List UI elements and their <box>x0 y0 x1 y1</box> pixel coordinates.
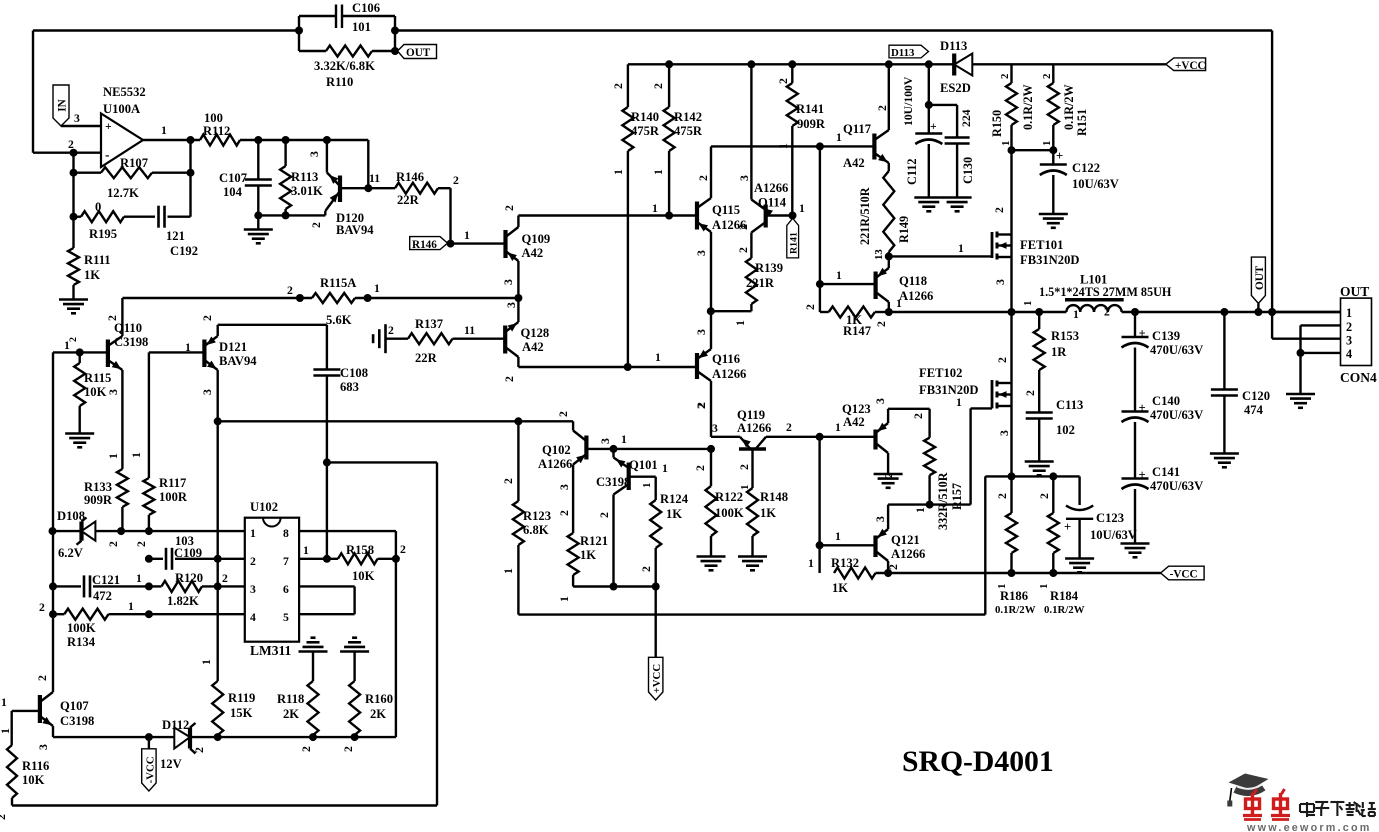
svg-text:2: 2 <box>107 541 120 547</box>
svg-text:2: 2 <box>694 465 707 471</box>
svg-text:3: 3 <box>874 516 887 522</box>
svg-text:Q118: Q118 <box>899 274 927 288</box>
svg-text:10K: 10K <box>84 385 107 399</box>
svg-text:2: 2 <box>1104 306 1110 319</box>
svg-text:R148: R148 <box>760 490 788 504</box>
svg-text:100R: 100R <box>159 490 188 504</box>
net flag D113 <box>889 45 929 59</box>
svg-text:OUT: OUT <box>1254 265 1266 290</box>
svg-text:1: 1 <box>374 282 380 295</box>
title SRQ-D4001 <box>902 746 1054 778</box>
logo text dianzi xiazaizhan <box>1300 802 1376 817</box>
svg-text:5.6K: 5.6K <box>326 313 352 327</box>
svg-text:A1266: A1266 <box>754 181 788 195</box>
diode D112 12V zener <box>160 718 206 771</box>
wire bottom loop <box>12 804 437 806</box>
svg-text:2: 2 <box>777 78 790 84</box>
svg-text:R140: R140 <box>631 110 659 124</box>
mosfet FET102 FB31N20D <box>919 357 1012 436</box>
wire CON4 pin3 link <box>1272 312 1340 339</box>
svg-text:1: 1 <box>652 202 658 215</box>
svg-text:3: 3 <box>505 302 518 308</box>
svg-text:1K: 1K <box>832 581 848 595</box>
svg-text:100K: 100K <box>67 621 96 635</box>
net flag +VCC <box>1166 58 1206 72</box>
resistor R132 1K <box>808 556 876 595</box>
wire D121 pin1 to R117 <box>130 352 149 478</box>
svg-text:R123: R123 <box>523 509 551 523</box>
svg-text:2: 2 <box>1041 74 1053 79</box>
svg-text:C122: C122 <box>1072 161 1100 175</box>
wire bottom rail (R123 to FET102) <box>518 476 985 614</box>
svg-text:3: 3 <box>107 389 120 395</box>
svg-text:100K: 100K <box>715 506 744 520</box>
wire Q123 collector to R157 <box>888 409 930 438</box>
svg-text:1: 1 <box>1038 584 1050 589</box>
net flag OUT (vertical) <box>1251 257 1266 312</box>
svg-text:Q123: Q123 <box>842 402 871 416</box>
resistor R146 22R <box>364 170 459 244</box>
resistor R118 2K <box>277 681 319 752</box>
svg-text:C141: C141 <box>1152 465 1180 479</box>
svg-text:2: 2 <box>738 464 751 470</box>
svg-text:A1266: A1266 <box>891 547 925 561</box>
resistor R121 1K <box>558 465 608 603</box>
resistor R124 1K <box>640 492 689 587</box>
svg-text:Q128: Q128 <box>521 326 550 340</box>
svg-text:1: 1 <box>835 530 841 543</box>
svg-text:R119: R119 <box>228 691 255 705</box>
transistor Q118 A1266 <box>804 256 933 327</box>
svg-text:2: 2 <box>342 746 355 752</box>
svg-text:2: 2 <box>400 543 406 556</box>
svg-text:2: 2 <box>996 493 1009 499</box>
capacitor C122 10U/63V <box>1040 149 1119 213</box>
svg-text:R122: R122 <box>715 490 743 504</box>
capacitor C109 103 <box>145 534 245 570</box>
connector CON4 <box>1340 284 1377 385</box>
svg-text:Q121: Q121 <box>891 533 920 547</box>
svg-text:1: 1 <box>835 421 841 434</box>
svg-text:R146: R146 <box>412 239 437 251</box>
svg-text:5: 5 <box>283 611 289 624</box>
svg-text:R147: R147 <box>843 324 871 338</box>
resistor R150 0.1R/2W <box>990 64 1035 150</box>
svg-text:IN: IN <box>57 99 69 111</box>
resistor R137 22R <box>386 317 506 365</box>
svg-text:0.1R/2W: 0.1R/2W <box>995 604 1036 616</box>
svg-text:R153: R153 <box>1051 329 1079 343</box>
svg-text:Q102: Q102 <box>542 443 571 457</box>
ground above R118 <box>299 638 328 681</box>
svg-text:2: 2 <box>310 222 323 228</box>
svg-text:2: 2 <box>695 402 708 408</box>
transistor Q119 A1266 <box>695 381 820 490</box>
svg-text:1: 1 <box>612 169 625 175</box>
svg-text:2: 2 <box>36 675 49 681</box>
svg-text:2: 2 <box>598 512 611 518</box>
svg-text:4: 4 <box>250 611 256 624</box>
resistor R142 475R <box>652 64 703 215</box>
transistor Q117 A42 <box>843 64 889 171</box>
svg-text:FB31N20D: FB31N20D <box>1020 253 1079 267</box>
svg-text:R124: R124 <box>660 492 689 506</box>
svg-text:+: + <box>1139 401 1146 415</box>
wire C108 to U102 pin7 node <box>323 458 331 562</box>
wire FET101 gate <box>885 242 992 260</box>
svg-text:224: 224 <box>960 109 973 127</box>
svg-text:+: + <box>105 120 112 133</box>
resistor R151 0.1R/2W <box>1041 64 1089 150</box>
wire D121 pin3 vertical <box>214 370 222 586</box>
svg-text:1: 1 <box>662 462 668 475</box>
svg-text:C107: C107 <box>219 171 247 185</box>
svg-text:R133: R133 <box>84 480 112 494</box>
wire R146 flag to Q109 base <box>451 242 506 244</box>
svg-text:2K: 2K <box>370 707 386 721</box>
svg-text:Q107: Q107 <box>60 699 89 713</box>
resistor R139 221R <box>711 258 783 326</box>
svg-text:1: 1 <box>896 297 902 310</box>
capacitor C192 121 <box>159 206 199 258</box>
resistor R149 221R/510R <box>858 171 911 260</box>
ground R148 <box>738 557 767 571</box>
svg-text:101: 101 <box>352 20 371 34</box>
transistor Q115 A1266 <box>695 146 746 311</box>
svg-text:1K: 1K <box>760 506 776 520</box>
transistor Q101 C3198 <box>596 449 668 587</box>
svg-text:C108: C108 <box>340 366 368 380</box>
svg-text:R160: R160 <box>365 692 393 706</box>
op-amp U100A NE5532 <box>101 85 146 167</box>
svg-text:3: 3 <box>695 250 708 256</box>
svg-text:LM311: LM311 <box>250 643 292 658</box>
svg-text:2: 2 <box>388 324 394 337</box>
svg-text:1: 1 <box>1 696 7 709</box>
net flag -VCC (bottom left) <box>142 737 157 791</box>
svg-text:683: 683 <box>340 380 359 394</box>
capacitor C140 470U/63V <box>1122 394 1204 478</box>
svg-text:R110: R110 <box>326 75 353 89</box>
svg-text:2: 2 <box>993 207 1006 213</box>
wire feedback block left <box>295 16 303 51</box>
svg-text:2: 2 <box>640 566 653 572</box>
svg-text:2: 2 <box>652 83 665 89</box>
svg-text:22R: 22R <box>397 193 420 207</box>
wire output rail <box>885 308 1341 316</box>
svg-text:U100A: U100A <box>103 102 140 116</box>
svg-text:NE5532: NE5532 <box>103 85 146 99</box>
svg-text:1: 1 <box>161 124 167 137</box>
wire op-amp output node <box>143 124 200 144</box>
ground above R160 <box>340 638 369 681</box>
transistor Q128 A42 <box>503 298 549 382</box>
svg-text:D113: D113 <box>940 39 967 53</box>
svg-text:2: 2 <box>612 83 625 89</box>
svg-text:Q101: Q101 <box>629 458 658 472</box>
svg-text:2: 2 <box>453 174 459 187</box>
svg-text:R141: R141 <box>796 102 824 116</box>
svg-text:+VCC: +VCC <box>651 664 663 694</box>
resistor R120 1.82K <box>145 571 245 608</box>
resistor R119 15K <box>200 586 255 737</box>
svg-text:2: 2 <box>201 315 214 321</box>
wire C107-R113-D120 bottom rail <box>254 211 325 219</box>
resistor R141 909R <box>777 64 826 215</box>
svg-text:A42: A42 <box>843 156 865 170</box>
svg-text:BAV94: BAV94 <box>336 223 374 237</box>
svg-text:12V: 12V <box>160 757 182 771</box>
svg-text:R121: R121 <box>580 534 608 548</box>
ground CON4 <box>1286 394 1315 408</box>
svg-text:1: 1 <box>1073 308 1079 321</box>
ground C113 <box>1025 462 1054 476</box>
svg-text:C139: C139 <box>1152 329 1180 343</box>
svg-text:1: 1 <box>250 527 256 540</box>
net flag -VCC (right) <box>1161 566 1205 580</box>
wire Q116 base rail <box>518 351 697 371</box>
ground C107 <box>244 215 273 243</box>
svg-text:3: 3 <box>250 583 256 596</box>
svg-text:R150: R150 <box>990 110 1004 137</box>
svg-text:Q119: Q119 <box>737 408 765 422</box>
resistor R117 100R <box>135 476 188 547</box>
svg-text:3: 3 <box>502 279 515 285</box>
svg-text:1: 1 <box>464 229 470 242</box>
svg-text:102: 102 <box>1056 423 1075 437</box>
svg-text:4: 4 <box>1346 347 1352 361</box>
svg-text:8: 8 <box>283 527 289 540</box>
svg-text:D108: D108 <box>57 509 85 523</box>
resistor R115A 5.6K <box>312 276 356 327</box>
ground R115 <box>65 434 94 448</box>
capacitor C130 224 <box>929 105 975 197</box>
svg-text:1.5*1*24TS 27MM 85UH: 1.5*1*24TS 27MM 85UH <box>1039 285 1172 299</box>
capacitor C113 102 <box>1024 390 1083 461</box>
svg-text:1: 1 <box>1041 141 1053 146</box>
resistor R184 0.1R/2W <box>1038 476 1085 616</box>
wire feedback block right <box>391 16 399 55</box>
svg-text:2K: 2K <box>283 707 299 721</box>
svg-text:1K: 1K <box>580 548 596 562</box>
capacitor C120 474 <box>1211 312 1270 453</box>
svg-text:C3198: C3198 <box>596 475 630 489</box>
svg-text:2: 2 <box>737 247 750 253</box>
resistor R195 0 <box>70 173 156 241</box>
svg-text:2: 2 <box>876 105 889 111</box>
svg-text:22R: 22R <box>415 351 438 365</box>
resistor R160 2K <box>342 681 393 752</box>
wire Q102 base node <box>610 433 712 453</box>
ground R111 <box>59 300 88 314</box>
svg-text:2: 2 <box>786 421 792 434</box>
transistor Q114 A1266 <box>737 64 805 258</box>
svg-text:1: 1 <box>836 269 842 282</box>
svg-text:13: 13 <box>873 249 885 260</box>
svg-text:FET102: FET102 <box>919 366 962 380</box>
transistor Q107 C3198 <box>1 675 94 750</box>
svg-text:C3198: C3198 <box>60 714 94 728</box>
resistor R116 10K <box>0 711 49 820</box>
resistor R153 1R <box>1022 301 1079 412</box>
ground Q123 <box>874 474 903 488</box>
svg-text:1: 1 <box>1022 301 1034 306</box>
svg-text:-VCC: -VCC <box>144 756 156 783</box>
svg-text:R117: R117 <box>159 476 186 490</box>
ground R137 (left style) <box>373 324 394 353</box>
svg-text:R149: R149 <box>897 216 911 243</box>
resistor R133 909R <box>84 469 128 547</box>
wire Q118 base vertical <box>816 146 824 312</box>
svg-text:C109: C109 <box>174 546 202 560</box>
svg-text:BAV94: BAV94 <box>219 354 257 368</box>
svg-text:2: 2 <box>557 411 570 417</box>
resistor R115 10K <box>74 352 111 432</box>
svg-text:Q117: Q117 <box>843 122 871 136</box>
wire R150-R151 bottom link <box>1008 146 1058 154</box>
svg-text:SRQ-D4001: SRQ-D4001 <box>902 746 1054 778</box>
transistor Q121 A1266 <box>874 505 925 573</box>
wire D121 to C108 <box>218 324 327 326</box>
logo bug characters <box>1243 789 1290 820</box>
resistor R122 100K <box>694 445 744 556</box>
diode D120 BAV94 <box>308 140 374 237</box>
logo url www.eeworm.com <box>1246 822 1372 832</box>
svg-text:R151: R151 <box>1075 109 1089 136</box>
svg-text:1: 1 <box>130 452 143 458</box>
svg-text:3.32K/6.8K: 3.32K/6.8K <box>314 59 375 73</box>
svg-text:1: 1 <box>558 596 571 602</box>
svg-text:470U/63V: 470U/63V <box>1150 408 1203 422</box>
svg-text:474: 474 <box>1244 403 1264 417</box>
net flag OUT (top) <box>398 45 437 60</box>
svg-text:A1266: A1266 <box>712 367 746 381</box>
svg-text:R120: R120 <box>175 571 203 585</box>
svg-text:-VCC: -VCC <box>1170 569 1198 581</box>
wire Q117 base rail <box>711 131 874 150</box>
svg-text:10U/100V: 10U/100V <box>902 76 915 126</box>
svg-text:1: 1 <box>136 572 142 585</box>
svg-text:3: 3 <box>998 430 1011 436</box>
svg-text:0.1R/2W: 0.1R/2W <box>1044 604 1085 616</box>
svg-text:11: 11 <box>369 172 380 185</box>
wire -VCC rail (left) <box>53 733 396 741</box>
svg-text:221R: 221R <box>746 276 775 290</box>
svg-text:+: + <box>1064 520 1071 534</box>
ground C112 <box>914 198 943 212</box>
svg-text:R186: R186 <box>1000 589 1028 603</box>
svg-text:FB31N20D: FB31N20D <box>919 383 978 397</box>
net flag +VCC (bottom) <box>649 587 664 701</box>
svg-text:D121: D121 <box>219 340 247 354</box>
resistor R112 100 <box>200 111 240 146</box>
svg-text:Q114: Q114 <box>758 196 787 210</box>
svg-text:A42: A42 <box>843 415 865 429</box>
svg-text:470U/63V: 470U/63V <box>1150 479 1203 493</box>
net flag R146 <box>410 229 470 251</box>
svg-text:C140: C140 <box>1152 394 1180 408</box>
wire CON4 pin1 <box>1272 311 1340 313</box>
svg-text:+: + <box>1139 327 1146 341</box>
svg-text:1: 1 <box>1346 306 1352 320</box>
svg-text:C120: C120 <box>1242 389 1270 403</box>
svg-text:R146: R146 <box>396 170 424 184</box>
svg-text:R116: R116 <box>22 759 49 773</box>
svg-text:2: 2 <box>68 337 79 342</box>
svg-text:2: 2 <box>250 555 256 568</box>
svg-text:100: 100 <box>204 111 223 125</box>
IC U102 LM311 <box>245 500 299 658</box>
net flag IN <box>53 85 101 126</box>
inductor L101 85UH <box>1039 273 1172 322</box>
svg-text:221R/510R: 221R/510R <box>858 187 872 245</box>
svg-text:1: 1 <box>1000 141 1012 146</box>
svg-text:2: 2 <box>300 746 313 752</box>
svg-text:2: 2 <box>287 284 293 297</box>
capacitor C112 10U/100V <box>902 64 942 196</box>
svg-text:3: 3 <box>695 329 708 335</box>
wire Q123 base node <box>816 421 876 441</box>
capacitor C106 101 <box>299 1 395 34</box>
svg-text:C123: C123 <box>1096 511 1124 525</box>
svg-text:OUT: OUT <box>406 47 431 59</box>
svg-text:1: 1 <box>914 507 927 513</box>
svg-text:6: 6 <box>283 583 289 596</box>
svg-text:3: 3 <box>599 438 612 444</box>
wire Q115 base rail <box>518 202 697 220</box>
svg-text:6.2V: 6.2V <box>58 546 83 560</box>
wire Q101 collector rail <box>573 583 660 591</box>
transistor Q116 A1266 <box>695 311 746 408</box>
svg-text:R139: R139 <box>755 261 783 275</box>
svg-text:7: 7 <box>283 555 289 568</box>
svg-text:1.82K: 1.82K <box>167 594 199 608</box>
svg-text:1: 1 <box>836 131 842 144</box>
svg-text:R112: R112 <box>203 124 230 138</box>
svg-text:D113: D113 <box>891 47 915 59</box>
svg-text:3: 3 <box>558 484 571 490</box>
svg-text:U102: U102 <box>250 500 278 514</box>
wire op-amp minus input <box>68 138 78 157</box>
svg-text:R134: R134 <box>67 635 96 649</box>
wire FET102 drain-source vertical <box>1010 312 1012 476</box>
ground C141 <box>1121 544 1150 558</box>
transistor Q110 C3198 <box>53 298 148 469</box>
svg-text:470U/63V: 470U/63V <box>1150 343 1203 357</box>
svg-text:12.7K: 12.7K <box>107 186 139 200</box>
svg-text:1: 1 <box>958 242 964 255</box>
resistor R158 10K <box>299 543 406 583</box>
svg-text:1: 1 <box>0 728 12 734</box>
svg-text:2: 2 <box>106 315 119 321</box>
wire FET102 source rail <box>985 472 1079 480</box>
svg-text:3: 3 <box>712 422 718 435</box>
svg-text:FET101: FET101 <box>1020 238 1063 252</box>
svg-text:10U/63V: 10U/63V <box>1072 177 1119 191</box>
svg-text:www.eeworm.com: www.eeworm.com <box>1246 822 1372 832</box>
svg-text:2: 2 <box>697 175 710 181</box>
wire R115A rail <box>122 282 522 302</box>
svg-text:10K: 10K <box>22 773 45 787</box>
svg-text:A1266: A1266 <box>737 421 771 435</box>
wire IN feedback net (top-left) <box>33 31 299 153</box>
svg-text:C130: C130 <box>961 157 975 184</box>
transistor Q109 A42 <box>502 205 550 298</box>
svg-text:3: 3 <box>1346 334 1352 348</box>
svg-text:Q110: Q110 <box>114 321 142 335</box>
wire CON4 pin2-pin4 link <box>1297 325 1341 393</box>
svg-text:0.1R/2W: 0.1R/2W <box>1062 84 1076 130</box>
